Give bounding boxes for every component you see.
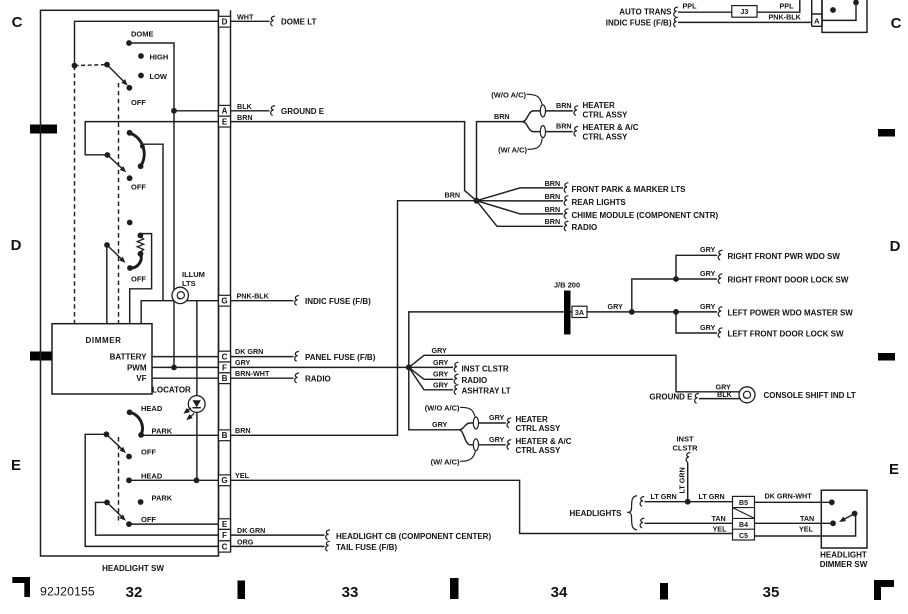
connector end rear lights <box>564 196 568 206</box>
svg-text:CTRL ASSY: CTRL ASSY <box>516 424 562 433</box>
svg-text:HEATER & A/C: HEATER & A/C <box>583 123 639 132</box>
svg-text:CTRL ASSY: CTRL ASSY <box>516 446 562 455</box>
heater Y lower branch <box>522 122 540 132</box>
tap node sw2 <box>140 144 145 149</box>
svg-text:OFF: OFF <box>131 183 146 192</box>
connector pin F cell 11 <box>219 529 231 540</box>
wire sw2 tap to illum feed <box>142 144 163 301</box>
lamp console shift ind <box>739 387 755 403</box>
wire JB200 out <box>571 311 632 313</box>
wire PPL up <box>757 0 800 12</box>
branch radio BRN <box>477 201 564 227</box>
svg-text:BRN: BRN <box>556 122 572 131</box>
wire left front door lock <box>676 312 717 333</box>
connector end ground E <box>271 106 275 116</box>
svg-text:WHT: WHT <box>237 12 254 21</box>
svg-text:CHIME MODULE (COMPONENT CNTR): CHIME MODULE (COMPONENT CNTR) <box>572 211 719 220</box>
svg-text:GRY: GRY <box>432 346 448 355</box>
fuse J/B 200 element <box>564 291 571 335</box>
LED arrow 2 <box>185 414 193 422</box>
connector strip left edge <box>218 10 220 552</box>
svg-text:CTRL ASSY: CTRL ASSY <box>583 111 629 120</box>
arrowhead sw3 <box>119 257 127 265</box>
wire top right internal <box>822 2 856 20</box>
arrowhead sw4 <box>119 447 127 455</box>
bottom tick 34/35 <box>660 583 668 600</box>
mechanical dash link center <box>118 83 120 324</box>
svg-text:J3: J3 <box>740 7 748 16</box>
arrowhead sw1 <box>121 79 129 87</box>
inline connector W/ A/C BRN <box>540 126 545 138</box>
contact HIGH <box>138 53 144 59</box>
wire GRY heater 2 <box>479 444 506 446</box>
connector end r f door lock <box>718 274 722 284</box>
svg-text:TAN: TAN <box>800 514 814 523</box>
arrowhead dimmer <box>838 517 846 525</box>
svg-text:LOW: LOW <box>150 72 168 81</box>
svg-text:PARK: PARK <box>152 494 173 503</box>
wire LT GRN vertical <box>687 463 689 502</box>
svg-text:C: C <box>222 542 228 551</box>
contact OFF sw4 <box>126 454 132 460</box>
svg-text:B: B <box>222 431 228 440</box>
wire HEAD to pin G lower <box>129 479 219 481</box>
svg-text:(W/O A/C): (W/O A/C) <box>425 403 460 412</box>
contact PARK sw4 <box>138 432 144 438</box>
connector end headlight cb <box>326 530 330 540</box>
wire GRY to junction <box>231 366 409 368</box>
svg-text:(W/ A/C): (W/ A/C) <box>498 145 527 154</box>
svg-text:DK GRN-WHT: DK GRN-WHT <box>765 492 813 501</box>
switch arm sw1 <box>107 65 126 84</box>
dimmer module box <box>52 324 152 394</box>
svg-text:HEATER & A/C: HEATER & A/C <box>516 437 572 446</box>
svg-text:CONSOLE SHIFT IND LT: CONSOLE SHIFT IND LT <box>764 391 856 400</box>
contact OFF sw1 <box>126 85 132 91</box>
connector end auto trans <box>674 7 678 17</box>
svg-text:GRY: GRY <box>489 413 505 422</box>
contact OFF sw3 <box>127 265 133 271</box>
svg-text:INST: INST <box>676 434 694 443</box>
connector end inst clstr top <box>686 453 690 463</box>
pivot sw2 <box>105 152 111 158</box>
svg-text:BRN: BRN <box>545 217 561 226</box>
wire pin D feed <box>75 21 219 65</box>
contact LOW <box>138 73 144 79</box>
wire YEL right <box>755 514 856 537</box>
svg-text:BRN: BRN <box>556 101 572 110</box>
svg-text:PWM: PWM <box>127 364 147 373</box>
svg-text:INST CLSTR: INST CLSTR <box>462 364 509 373</box>
svg-text:OFF: OFF <box>141 515 156 524</box>
contact bottom sw2 <box>138 163 144 169</box>
wire TAN right <box>755 522 834 524</box>
wire DOME contact to pin A <box>129 43 174 111</box>
hook W/O A/C GRY <box>460 407 475 416</box>
contact HEAD sw4 <box>127 409 133 415</box>
connector end GRY heater 1 <box>507 418 511 428</box>
splice J3 box <box>732 6 757 18</box>
svg-text:GRY: GRY <box>433 370 449 379</box>
switch arm dimmer <box>842 514 855 521</box>
svg-text:YEL: YEL <box>235 471 250 480</box>
heater Y lower branch GRY <box>459 430 473 445</box>
wire ORG tail fuse <box>231 545 325 547</box>
svg-text:BLK: BLK <box>717 390 733 399</box>
svg-text:A: A <box>222 107 228 116</box>
svg-text:HEADLIGHT CB (COMPONENT CENTER: HEADLIGHT CB (COMPONENT CENTER) <box>336 532 491 541</box>
node GRY junction <box>406 364 412 370</box>
wiper track arc sw3 <box>130 254 141 268</box>
svg-text:92J20155: 92J20155 <box>40 585 95 599</box>
wire right front pwr wdo <box>676 255 717 279</box>
wire TAN left <box>645 522 733 524</box>
svg-text:34: 34 <box>551 584 568 601</box>
contact top sw2 <box>127 130 133 136</box>
mechanical dash link vertical left <box>74 66 76 324</box>
hook W/ A/C GRY <box>460 451 475 461</box>
wire BLK ground E <box>231 110 270 112</box>
right margin tick upper <box>878 129 895 137</box>
connector end ground E console <box>695 393 699 403</box>
contact PARK sw5 <box>138 499 144 505</box>
connector strip right edge <box>230 10 232 552</box>
crossover diagonal <box>733 508 755 519</box>
branch inst clstr <box>409 366 453 368</box>
svg-text:G: G <box>221 297 227 306</box>
connector pin G cell 4 <box>219 295 231 306</box>
pivot sw3 <box>104 242 110 248</box>
svg-text:33: 33 <box>342 584 359 601</box>
svg-text:B4: B4 <box>739 522 748 529</box>
connector end ashtray <box>454 385 458 395</box>
svg-text:TAIL FUSE (F/B): TAIL FUSE (F/B) <box>336 543 397 552</box>
svg-text:E: E <box>222 520 228 529</box>
connector end radio GRY <box>454 374 458 384</box>
resistor rheostat element <box>137 237 143 253</box>
svg-text:PNK-BLK: PNK-BLK <box>237 291 270 300</box>
wiper track arc sw4 <box>130 412 143 435</box>
svg-text:HEADLIGHTS: HEADLIGHTS <box>570 509 623 518</box>
heater Y upper branch GRY <box>459 423 473 430</box>
node BRN junction <box>474 198 480 204</box>
svg-text:GRY: GRY <box>433 380 449 389</box>
connector end l pwr wdo <box>718 307 722 317</box>
svg-text:C: C <box>222 353 228 362</box>
svg-text:DK GRN: DK GRN <box>235 347 263 356</box>
svg-text:FRONT PARK & MARKER LTS: FRONT PARK & MARKER LTS <box>572 185 687 194</box>
svg-text:C: C <box>12 14 23 31</box>
svg-text:GRY: GRY <box>433 358 449 367</box>
svg-text:LEFT POWER WDO MASTER SW: LEFT POWER WDO MASTER SW <box>728 308 854 317</box>
LED arrow 1 <box>182 408 190 416</box>
connector end r f pwr wdo <box>718 250 722 260</box>
svg-text:D: D <box>890 238 901 255</box>
svg-text:HEADLIGHT: HEADLIGHT <box>820 551 867 560</box>
svg-text:HEATER: HEATER <box>516 415 549 424</box>
wire BRN heater 2 <box>546 131 573 133</box>
svg-text:GRY: GRY <box>700 302 716 311</box>
wire YEL headlight feed <box>231 480 733 533</box>
switch arm sw5 <box>107 502 124 518</box>
arrowhead sw5 <box>119 514 127 522</box>
bottom tick 32/33 <box>238 581 246 600</box>
svg-text:ASHTRAY LT: ASHTRAY LT <box>462 387 511 396</box>
svg-text:BRN: BRN <box>235 426 251 435</box>
node LED to YEL junction <box>194 477 200 483</box>
svg-text:OFF: OFF <box>131 275 146 284</box>
wire right front door lock <box>676 278 717 280</box>
connector end heater 1 <box>574 106 578 116</box>
svg-text:HEATER: HEATER <box>583 101 616 110</box>
svg-text:INDIC FUSE (F/B): INDIC FUSE (F/B) <box>305 297 371 306</box>
hook W/ A/C BRN <box>528 138 543 149</box>
svg-text:GRY: GRY <box>608 302 624 311</box>
wire BRN park feed <box>231 201 474 436</box>
connector end radio BRN <box>564 221 568 231</box>
rheostat bottom node <box>138 251 144 257</box>
svg-text:VF: VF <box>136 374 146 383</box>
svg-text:RIGHT FRONT PWR WDO SW: RIGHT FRONT PWR WDO SW <box>728 252 841 261</box>
wire illum feed to LED <box>196 301 198 481</box>
branch radio GRY <box>409 367 453 379</box>
svg-text:GROUND E: GROUND E <box>649 393 693 402</box>
branch chime module <box>477 201 564 214</box>
arrowhead sw2 <box>120 166 128 174</box>
wire pivot sw3 to dimmer <box>106 245 108 324</box>
connector pin F cell 6 <box>219 362 231 373</box>
svg-text:D: D <box>11 237 22 254</box>
bottom tick 33/34 <box>450 578 459 599</box>
svg-text:BRN-WHT: BRN-WHT <box>235 369 270 378</box>
svg-text:F: F <box>222 531 227 540</box>
wire PPL to J3 <box>678 11 732 13</box>
svg-text:INDIC FUSE (F/B): INDIC FUSE (F/B) <box>606 19 672 28</box>
svg-text:35: 35 <box>763 584 780 601</box>
wire DK GRN panel fuse <box>231 356 294 358</box>
svg-text:REAR LIGHTS: REAR LIGHTS <box>572 198 627 207</box>
mechanical dash link lower <box>118 437 120 524</box>
connector cell divider 1 <box>733 507 755 509</box>
svg-text:ORG: ORG <box>237 537 254 546</box>
svg-text:GRY: GRY <box>700 269 716 278</box>
contact dimmer lo <box>830 520 836 526</box>
wire LT GRN <box>645 501 733 503</box>
contact DOME <box>126 40 132 46</box>
branch GRY to JB200 <box>409 312 564 368</box>
svg-text:G: G <box>221 476 227 485</box>
contact top sw3 <box>127 220 133 226</box>
wire PNK-BLK top <box>678 21 812 23</box>
svg-text:PPL: PPL <box>683 1 698 10</box>
wire DK GRN headlight cb <box>231 534 325 536</box>
wire rheostat to dimmer <box>130 234 152 324</box>
svg-text:RADIO: RADIO <box>305 375 331 384</box>
svg-text:GRY: GRY <box>235 358 251 367</box>
connector pin A cell 2 <box>219 105 231 116</box>
node pin A junction <box>171 108 177 114</box>
svg-text:DK GRN: DK GRN <box>237 526 265 535</box>
pivot sw4 <box>104 431 110 437</box>
connector end front park <box>564 183 568 193</box>
contact dimmer hi <box>829 499 835 505</box>
svg-text:OFF: OFF <box>131 98 146 107</box>
connector end l f door lock <box>718 328 722 338</box>
wire left pwr wdo master <box>632 311 717 313</box>
connector B5-B4-C5 box <box>733 496 755 540</box>
svg-text:BRN: BRN <box>445 191 461 200</box>
connector end inst clstr <box>454 362 458 372</box>
wire PNK-BLK <box>231 300 294 302</box>
hook W/O A/C BRN <box>527 94 543 104</box>
svg-text:DOME: DOME <box>131 30 154 39</box>
svg-text:HIGH: HIGH <box>150 53 169 62</box>
right margin tick lower <box>878 353 895 361</box>
wire pin G illum feed <box>141 301 218 324</box>
wire WHT dome lt <box>231 20 270 22</box>
wire PARK to pin B lower <box>141 434 218 436</box>
svg-text:3A: 3A <box>575 308 584 317</box>
connector end indic fuse top <box>674 17 678 27</box>
svg-text:RIGHT FRONT DOOR LOCK SW: RIGHT FRONT DOOR LOCK SW <box>728 275 849 284</box>
inline connector W/O A/C BRN <box>540 105 545 117</box>
node GRY right 2 <box>673 276 679 282</box>
svg-text:LOCATOR: LOCATOR <box>152 386 191 395</box>
wire DK GRN-WHT <box>755 501 832 503</box>
wire OFF sw5 to pin E lower <box>129 523 219 525</box>
branch GRY to heater <box>409 367 459 429</box>
svg-text:E: E <box>889 461 899 478</box>
contact OFF sw5 <box>126 521 132 527</box>
svg-text:LT GRN: LT GRN <box>651 492 677 501</box>
wire GRY heater 1 <box>479 422 506 424</box>
connector end tail fuse <box>326 541 330 551</box>
connector pin G cell 9 <box>219 475 231 486</box>
svg-text:B: B <box>222 374 228 383</box>
svg-text:BATTERY: BATTERY <box>110 352 148 361</box>
wire pin A internal <box>174 110 219 112</box>
wire VF to pin B <box>152 377 219 379</box>
svg-text:RADIO: RADIO <box>462 376 488 385</box>
node link sw1 <box>72 63 78 69</box>
svg-text:DOME LT: DOME LT <box>281 18 317 27</box>
svg-text:BRN: BRN <box>494 112 510 121</box>
left margin tick lower <box>30 352 57 361</box>
svg-text:A: A <box>814 17 820 26</box>
svg-text:LEFT FRONT DOOR LOCK SW: LEFT FRONT DOOR LOCK SW <box>728 330 844 339</box>
svg-text:BLK: BLK <box>237 102 253 111</box>
wire BRN heater 1 <box>546 110 573 112</box>
switch arm sw4 <box>106 434 123 451</box>
svg-text:RADIO: RADIO <box>572 223 598 232</box>
inline connector W/ A/C GRY <box>473 439 478 451</box>
wiper track arc sw2 <box>130 133 145 166</box>
fuse rating box 3A <box>572 306 587 317</box>
connector end chime <box>564 209 568 219</box>
svg-text:LT GRN: LT GRN <box>678 467 687 493</box>
wire pin E internal <box>85 122 218 155</box>
wire up to right pair <box>632 279 676 312</box>
connector end panel fuse <box>295 351 299 361</box>
svg-text:PNK-BLK: PNK-BLK <box>769 13 802 22</box>
connector end radio <box>295 373 299 383</box>
node GRY right 1 <box>629 309 635 315</box>
svg-text:GRY: GRY <box>432 420 448 429</box>
switch arm sw2 <box>107 155 124 170</box>
svg-text:PARK: PARK <box>152 426 173 435</box>
inline connector W/O A/C GRY <box>473 417 478 429</box>
svg-text:BRN: BRN <box>545 205 561 214</box>
svg-text:YEL: YEL <box>713 524 728 533</box>
svg-text:C: C <box>891 15 902 32</box>
branch GRY long <box>409 355 740 392</box>
connector end heater 2 <box>574 126 578 136</box>
branch rear lights <box>477 200 564 202</box>
svg-text:AUTO TRANS: AUTO TRANS <box>619 8 672 17</box>
switch arm sw3 <box>107 245 123 261</box>
wire BRN to heater Y <box>477 122 523 201</box>
headlight dimmer switch box <box>821 490 867 548</box>
connector pin C cell 12 <box>219 541 231 552</box>
contact top right 1 <box>830 7 836 13</box>
pin A cell top right <box>812 14 822 26</box>
svg-text:DIMMER: DIMMER <box>86 336 122 345</box>
lamp ILLUM LTS <box>172 287 188 303</box>
wire BLK console <box>699 398 740 400</box>
node PWM junction <box>171 365 177 371</box>
wire pivot sw4 to pin C lower <box>85 434 218 546</box>
node GRY right 3 <box>673 309 679 315</box>
LED locator lamp <box>185 396 205 419</box>
brace headlights <box>627 496 637 530</box>
pivot sw1 <box>104 62 110 68</box>
svg-text:(W/ A/C): (W/ A/C) <box>431 457 460 466</box>
branch ashtray <box>409 367 453 389</box>
wire dome feed vertical <box>173 111 175 368</box>
wire BATTERY to pin C <box>152 356 219 358</box>
svg-text:CTRL ASSY: CTRL ASSY <box>583 133 629 142</box>
svg-text:ILLUM: ILLUM <box>182 270 205 279</box>
svg-text:GRY: GRY <box>700 245 716 254</box>
bottom-right corner mark <box>874 580 894 600</box>
svg-text:YEL: YEL <box>799 524 814 533</box>
svg-text:C5: C5 <box>739 533 748 540</box>
svg-text:TAN: TAN <box>712 514 726 523</box>
wire PWM to pin F <box>152 366 219 368</box>
svg-text:GROUND E: GROUND E <box>281 107 325 116</box>
wire BRN-WHT radio <box>231 377 294 379</box>
connector end headlights lt grn <box>640 497 644 507</box>
connector cell divider 3 <box>733 528 755 530</box>
wire BRN main feed <box>231 122 477 201</box>
pin strip top right <box>812 0 822 26</box>
connector pin B cell 7 <box>219 373 231 384</box>
svg-text:F: F <box>222 363 227 372</box>
svg-text:E: E <box>222 118 228 127</box>
svg-text:32: 32 <box>126 584 143 601</box>
svg-text:D: D <box>222 18 228 27</box>
svg-text:BRN: BRN <box>545 192 561 201</box>
connector end indic fuse <box>295 296 299 306</box>
svg-text:CLSTR: CLSTR <box>673 444 699 453</box>
node LT GRN junction <box>685 499 691 505</box>
svg-text:PPL: PPL <box>780 1 795 10</box>
headlight switch outline <box>41 10 219 556</box>
connector end dome lt <box>271 16 275 26</box>
heater Y upper branch <box>522 111 540 122</box>
svg-text:BRN: BRN <box>237 113 253 122</box>
svg-text:OFF: OFF <box>141 448 156 457</box>
